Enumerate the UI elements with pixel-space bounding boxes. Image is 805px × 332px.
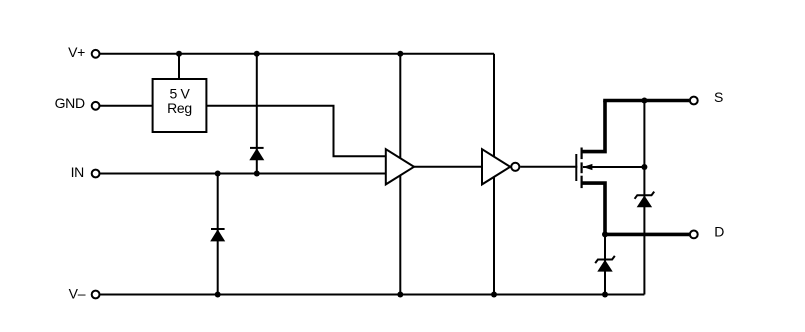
Q1 channel segments [580,148,582,160]
wire IN rail [100,173,387,175]
svg-text:V+: V+ [68,44,85,60]
diode D1 [250,148,264,160]
junction D rail / Q1 source [602,231,608,237]
wire diode D2 branch (IN rail to V- rail) [217,174,219,295]
Q1 gate bar [575,154,577,181]
wire V- bottom rail [100,294,644,296]
Q1 body arrow [583,164,593,170]
wire source/body sense line (S rail to V- rail corner) [643,101,645,295]
Q1 drain stub (top, to S) [582,101,605,152]
5V regulator block [153,79,207,132]
junction V- rail / Z2 [602,292,608,298]
junction V+ rail / U1 supply [397,51,403,57]
svg-text:IN: IN [71,164,84,180]
junction V+ rail / D1 [254,51,260,57]
junction S rail / sense line [641,98,647,104]
wire diode D1 branch (V+ rail to IN rail) [256,54,258,174]
wire buffer U1 output to inverter U2 input [413,166,483,168]
inverter U2 [482,149,519,184]
wire Q1 body to sense line [583,166,644,168]
wire GND to regulator [100,105,153,107]
zener Z2 (drain clamp) [595,256,615,271]
wire D rail (thick) [603,233,689,237]
Q1 source stub (bottom, to D) [582,183,605,234]
wire regulator top to V+ rail [178,54,180,79]
svg-text:S: S [714,89,723,105]
junction IN rail / D1 [254,171,260,177]
junction V- rail / U2 supply [491,292,497,298]
wire vertical supply line through buffer U1 [399,54,401,295]
junction V- rail / D2 [215,292,221,298]
wire V+ top rail [100,53,494,55]
terminal V+ [92,50,100,58]
wire S rail (thick) [603,99,689,103]
junction IN rail / D2 [215,171,221,177]
wire inverter U2 output to gate of Q1 [520,166,577,168]
terminal GND [92,102,100,110]
buffer U1 [386,149,414,184]
junction V- rail / U1 supply [397,292,403,298]
wire vertical supply line through inverter U2 [493,54,495,295]
wire regulator output to buffer U1 upper input [206,106,386,157]
terminal V- [92,291,100,299]
svg-text:V–: V– [69,285,86,301]
junction V+ rail / regulator [176,51,182,57]
MOSFET Q1 [576,101,605,235]
svg-text:GND: GND [55,95,85,111]
wire zener Z2 branch (D rail to V- rail) [604,234,606,294]
svg-text:D: D [714,223,724,239]
svg-text:Reg: Reg [167,100,192,116]
diode D2 [211,229,225,241]
terminal S [690,97,698,105]
zener Z1 (body clamp) [635,192,655,207]
junction body wire / sense line [641,164,647,170]
terminal D [690,231,698,239]
terminal IN [92,170,100,178]
